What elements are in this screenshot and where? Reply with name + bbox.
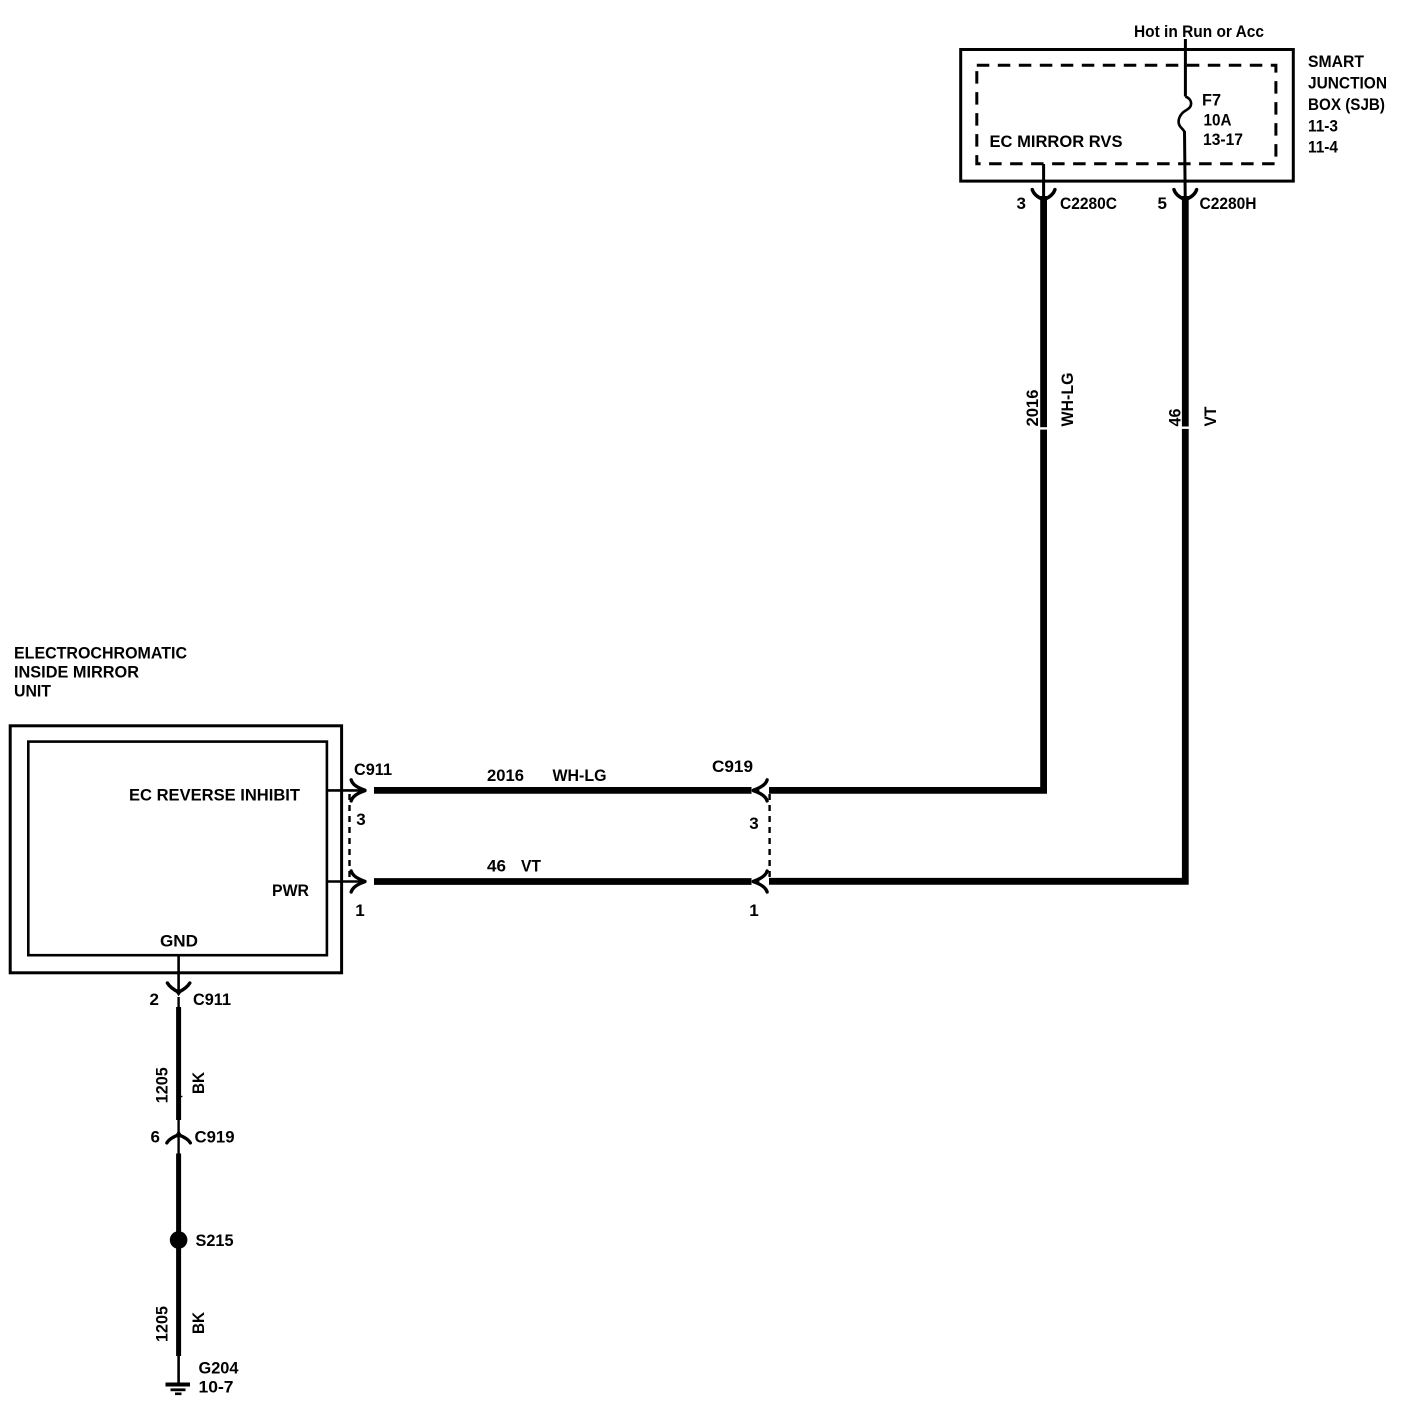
svg-text:5: 5 [1158,194,1167,213]
svg-text:1: 1 [749,901,758,920]
svg-text:WH-LG: WH-LG [553,766,607,785]
svg-text:ELECTROCHROMATIC: ELECTROCHROMATIC [14,644,187,663]
svg-text:UNIT: UNIT [14,682,52,701]
svg-text:C919: C919 [712,757,753,776]
svg-text:C911: C911 [354,760,392,779]
svg-text:1205: 1205 [153,1067,172,1103]
svg-text:13-17: 13-17 [1203,130,1243,149]
svg-text:46: 46 [1166,409,1185,427]
svg-text:Hot in Run or Acc: Hot in Run or Acc [1134,22,1264,41]
svg-text:3: 3 [749,814,758,833]
svg-text:SMART: SMART [1308,52,1365,71]
svg-text:BK: BK [189,1311,208,1334]
svg-text:WH-LG: WH-LG [1058,373,1077,427]
svg-text:C919: C919 [195,1128,235,1147]
svg-text:BOX (SJB): BOX (SJB) [1308,95,1385,114]
svg-text:C911: C911 [193,990,231,1009]
svg-text:VT: VT [1201,406,1220,427]
svg-text:PWR: PWR [272,881,309,900]
svg-text:EC REVERSE INHIBIT: EC REVERSE INHIBIT [129,786,301,805]
svg-text:2016: 2016 [1023,390,1042,427]
svg-text:3: 3 [1017,194,1026,213]
svg-text:C2280C: C2280C [1060,194,1117,213]
svg-text:10A: 10A [1204,111,1232,130]
svg-text:VT: VT [521,857,542,876]
svg-text:EC MIRROR RVS: EC MIRROR RVS [990,132,1123,151]
svg-text:F7: F7 [1202,91,1221,110]
svg-text:1: 1 [355,901,364,920]
svg-text:6: 6 [151,1128,160,1147]
svg-text:2016: 2016 [487,766,524,785]
svg-text:BK: BK [189,1071,208,1094]
svg-text:10-7: 10-7 [199,1378,234,1397]
svg-text:46: 46 [487,857,506,876]
svg-text:JUNCTION: JUNCTION [1308,74,1387,93]
svg-text:3: 3 [356,810,365,829]
svg-text:11-4: 11-4 [1308,138,1338,157]
svg-text:2: 2 [150,990,159,1009]
svg-text:GND: GND [160,932,198,951]
svg-text:11-3: 11-3 [1308,117,1338,136]
svg-text:C2280H: C2280H [1200,194,1257,213]
svg-text:1205: 1205 [153,1306,172,1342]
svg-text:S215: S215 [196,1231,234,1250]
svg-text:INSIDE MIRROR: INSIDE MIRROR [14,663,139,682]
svg-text:G204: G204 [199,1359,240,1378]
